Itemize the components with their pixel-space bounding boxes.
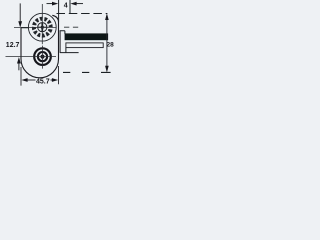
knurled wheel outer circle <box>28 13 56 41</box>
side view step top edge <box>60 31 65 34</box>
bushing center dot <box>41 55 45 59</box>
dimension 12.7 top arrow <box>18 3 22 27</box>
dimension 12.7 bottom arrow <box>17 57 21 70</box>
dimension 4 left extension line <box>58 0 60 22</box>
bushing centerline horizontal <box>6 56 57 58</box>
dimension 4 left arrow <box>47 2 59 6</box>
svg-text:45.7: 45.7 <box>36 79 50 86</box>
dimension 45.7 left extension line <box>20 67 22 86</box>
knurl ring teeth <box>32 16 54 38</box>
dimension 28 line <box>106 18 108 67</box>
bushing middle ring <box>38 52 47 61</box>
dimension 45.7 left arrow <box>21 78 35 82</box>
svg-text:28: 28 <box>107 41 115 48</box>
top reference dashed line <box>57 13 108 15</box>
svg-text:12.7: 12.7 <box>6 42 20 49</box>
dimension 28 top arrow <box>105 13 109 20</box>
bushing outer ring <box>34 48 51 65</box>
svg-text:4: 4 <box>64 2 68 9</box>
bushing centerline vertical <box>42 46 44 69</box>
bottom reference dashed line <box>63 71 111 73</box>
dimension 45.7 right arrow <box>51 78 59 82</box>
wheel center dot <box>41 26 44 29</box>
dimension 4 right extension line <box>69 0 71 14</box>
side view body plate (outlined bar) <box>66 43 103 48</box>
side view left face <box>59 31 61 53</box>
background <box>0 0 115 88</box>
hidden axis dashes (side view) <box>64 26 80 28</box>
dimension 45.7 right extension line <box>58 66 60 84</box>
wheel centerline vertical <box>41 4 43 44</box>
dimension 4 right arrow <box>70 2 83 6</box>
dimension 28 bottom arrow <box>105 66 109 73</box>
body outline (top view) <box>21 15 59 78</box>
wheel inner slot circle <box>38 23 47 32</box>
wheel centerline horizontal <box>14 26 56 28</box>
side view lower step <box>60 48 79 53</box>
slot cross <box>38 23 47 32</box>
side view wheel edge (black bar) <box>65 33 109 40</box>
